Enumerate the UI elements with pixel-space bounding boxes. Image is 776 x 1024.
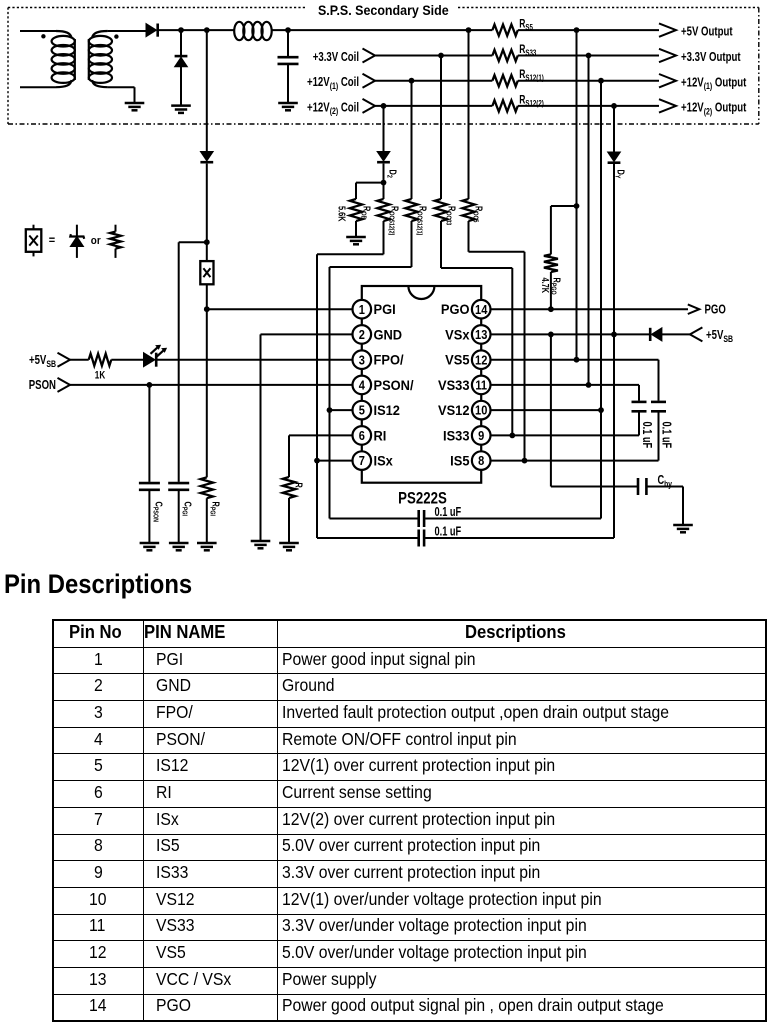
legend resistor symbol [110, 225, 121, 258]
label IS5 [450, 453, 470, 469]
svg-text:+12V(1) Output: +12V(1) Output [681, 76, 747, 91]
svg-text:VS12: VS12 [438, 403, 469, 419]
wire +12V(1) coil rail [375, 80, 492, 82]
node PSON to CPSON [147, 382, 153, 388]
resistor RI to ground [283, 477, 295, 543]
wire IS12 row to pin 5 [330, 409, 353, 411]
label ROCS12(1) [415, 206, 429, 235]
label ROCS12(2) [387, 206, 401, 235]
arrow +5VSB input [58, 353, 71, 367]
rectifier diode D1 on +5V rail [146, 24, 158, 37]
capacitor CPGI to ground [168, 242, 189, 543]
label C3 0.1 uF [659, 422, 673, 449]
node +12V(2) rail to D2 [381, 103, 387, 109]
label Cby [658, 474, 673, 489]
svg-text:IS33: IS33 [443, 428, 469, 444]
wire +5VSB to 1K resistor [70, 359, 89, 361]
node VS12 sense tap [598, 407, 604, 413]
capacitor CPSON to ground [139, 385, 160, 543]
svg-text:PGO: PGO [441, 302, 470, 318]
svg-text:+12V(1) Coil: +12V(1) Coil [307, 76, 359, 91]
wire PGI row to pin 1 [207, 308, 353, 310]
svg-text:+5V Output: +5V Output [681, 25, 733, 39]
arrow +5V Output [659, 23, 676, 36]
label +5V Output [681, 25, 733, 39]
capacitor C4 0.1uF on IS12 net [330, 410, 602, 527]
label RPGO [549, 278, 563, 295]
label RI [374, 428, 387, 444]
pin description table [52, 619, 767, 1022]
wire PGO row pin 14 to output arrow [491, 308, 689, 310]
wire GND pin 2 to ground rail [261, 334, 353, 541]
label +12V(2) Coil [307, 101, 359, 116]
legend equals sign [49, 235, 56, 247]
resistor ROCS12(2) [377, 183, 389, 255]
svg-text:IS5: IS5 [450, 453, 470, 469]
pin 14 PGO [472, 300, 491, 319]
svg-text:14: 14 [475, 302, 488, 317]
resistor ROC5 [462, 30, 474, 252]
wire VS33 row pin 11 [491, 384, 640, 386]
label IS33 [443, 428, 469, 444]
IC U1 PS222S body [362, 286, 481, 483]
node VSx to DY column [611, 332, 617, 338]
node RPGO top tap [574, 203, 580, 209]
freewheel diode D3 to ground [175, 30, 188, 106]
node D2 to ROB [381, 180, 387, 186]
node freewheel diode junction [178, 27, 184, 33]
capacitor C5 0.1uF on ISx net [317, 334, 614, 546]
svg-text:13: 13 [475, 327, 488, 342]
svg-text:PGI: PGI [374, 302, 396, 318]
svg-text:4: 4 [359, 378, 365, 393]
node PGI chain to CPGI link [204, 239, 210, 245]
pin 3 FPO/ [353, 350, 372, 369]
wire CPGI link [179, 241, 207, 243]
wire ROC33 to IS33 column [441, 268, 512, 435]
svg-text:6: 6 [359, 428, 365, 443]
wire +12V(1) sense column [600, 81, 602, 519]
arrow PGO output [688, 304, 700, 314]
label FPO/ [374, 352, 404, 368]
pin 4 PSON/ [353, 376, 372, 395]
label 5.6K [336, 206, 347, 222]
svg-text:RPGI: RPGI [208, 502, 222, 517]
output filter capacitor C1 [278, 30, 299, 103]
pin 12 VS5 [472, 350, 491, 369]
arrow PSON input [58, 378, 71, 392]
wire +12V(2) coil rail [375, 105, 492, 107]
label +12V(2) Output [681, 101, 747, 116]
arrow +5VSB right input [690, 327, 703, 341]
svg-text:D2: D2 [385, 170, 399, 179]
svg-text:11: 11 [475, 378, 487, 393]
node ISx column to pin 7 [314, 458, 320, 464]
svg-text:ROC5: ROC5 [471, 206, 485, 223]
ground at freewheel diode [171, 106, 191, 113]
svg-text:RI: RI [374, 428, 387, 444]
pin 11 VS33 [472, 376, 491, 395]
svg-text:VS5: VS5 [445, 352, 470, 368]
node +12V(1) rail to ROCS12(1) [409, 78, 415, 84]
svg-text:VSx: VSx [445, 327, 470, 343]
label PSON/ [374, 377, 414, 393]
svg-text:12: 12 [475, 352, 488, 367]
svg-text:PGO: PGO [705, 303, 726, 317]
label RS12(2) [519, 94, 544, 108]
label GND [374, 327, 403, 343]
wire ROCS12(2) to ISx column [317, 254, 384, 538]
label ISx [374, 453, 394, 469]
svg-text:+12V(2) Coil: +12V(2) Coil [307, 101, 359, 116]
ground at filter capacitor [278, 103, 298, 110]
label PGO [441, 302, 470, 318]
wire +3.3V rail right section [518, 55, 659, 57]
resistor RS5 [492, 25, 517, 36]
svg-text:+3.3V Coil: +3.3V Coil [313, 51, 359, 65]
svg-text:10: 10 [475, 403, 488, 418]
label +5VSB input [29, 354, 56, 369]
ground at transformer secondary [125, 103, 145, 110]
node +12V(2) sense tap [611, 103, 617, 109]
wire +5V rail left section [158, 29, 234, 31]
wire VS5 row pin 12 [491, 359, 659, 361]
transformer T1 secondary winding [89, 31, 146, 103]
pin 6 RI [353, 426, 372, 445]
arrow +12V(2) Coil input [363, 99, 376, 113]
svg-text:+3.3V Output: +3.3V Output [681, 51, 741, 65]
label +12V(1) Coil [307, 76, 359, 91]
resistor RS12(1) [492, 75, 517, 86]
svg-text:CPGI: CPGI [180, 502, 194, 517]
wire +3.3V sense column [588, 56, 590, 385]
label PGI [374, 302, 396, 318]
label +12V(1) Output [681, 76, 747, 91]
label ROB [359, 206, 373, 220]
label PGO output [705, 303, 726, 317]
label RS12(1) [519, 69, 544, 83]
svg-text:+12V(2) Output: +12V(2) Output [681, 101, 747, 116]
label C4 0.1 uF [435, 506, 462, 520]
ground at CPGI [169, 543, 189, 550]
diode D2 [377, 152, 390, 183]
svg-text:ROCS12(1): ROCS12(1) [415, 206, 429, 235]
pin 9 IS33 [472, 426, 491, 445]
arrow +3.3V Output [659, 49, 676, 62]
arrow +3.3V Coil input [363, 49, 376, 63]
svg-text:7: 7 [359, 453, 365, 468]
label +3.3V Coil [313, 51, 359, 65]
ground at ROB [346, 237, 366, 244]
node VS5 sense tap [574, 357, 580, 363]
wire +12V(2) rail right section [518, 105, 659, 107]
node +3.3V rail to ROC33 [438, 53, 444, 59]
svg-text:1K: 1K [95, 369, 105, 382]
wire 1K to LED [111, 359, 144, 361]
svg-text:3: 3 [359, 352, 365, 367]
svg-text:ISx: ISx [374, 453, 394, 469]
node IS12 column to pin 5 [327, 407, 333, 413]
node +12V(1) sense tap [598, 78, 604, 84]
transformer phase dot secondary [114, 34, 118, 38]
node PGI net junction [204, 306, 210, 312]
S.P.S. secondary side dashed boundary box [8, 8, 759, 125]
resistor RPGI to ground [201, 309, 213, 543]
resistor ROC33 [435, 56, 447, 269]
wire FPO row to pin 3 [157, 359, 353, 361]
pin 13 VSx [472, 325, 491, 344]
ground at RI [279, 543, 299, 550]
node +5V sense tap [574, 27, 580, 33]
label IS12 [374, 403, 400, 419]
svg-text:0.1 uF: 0.1 uF [435, 506, 462, 520]
wire ROC5 to IS5 column [469, 252, 525, 461]
node +5V rail to PGI chain [204, 27, 210, 33]
ground at GND pin [251, 541, 271, 548]
node +5V rail to ROC5 [466, 27, 472, 33]
label RS5 [519, 18, 533, 32]
pin 1 PGI [353, 300, 372, 319]
svg-text:PSON: PSON [29, 379, 56, 393]
wire RI pin 6 link [289, 435, 353, 477]
wire +5V sense column [576, 30, 578, 360]
svg-text:VS33: VS33 [438, 377, 469, 393]
label C5 0.1 uF [435, 525, 462, 539]
resistor RS12(2) [492, 100, 517, 111]
label PS222S [398, 489, 447, 508]
label 4.7K [540, 278, 551, 294]
label PSON input [29, 379, 56, 393]
pin 7 ISx [353, 451, 372, 470]
node +5V filter capacitor tap [285, 27, 291, 33]
svg-text:5: 5 [359, 403, 365, 418]
wire +5V rail middle section [272, 29, 493, 31]
arrow +12V(2) Output [659, 99, 676, 112]
heading Pin Descriptions [4, 569, 213, 600]
label VS33 [438, 377, 469, 393]
wire +5V rail down to PGI chain [206, 30, 208, 151]
label S.P.S. Secondary Side [318, 2, 449, 18]
protection element X1 (zener or resistor) in PGI chain [200, 242, 213, 309]
label RPGI [208, 502, 222, 517]
svg-text:S.P.S. Secondary Side: S.P.S. Secondary Side [318, 2, 449, 18]
ground at Cby [673, 525, 693, 532]
arrow +12V(1) Output [659, 74, 676, 87]
wire PSON row to pin 4 [70, 384, 353, 386]
pin 10 VS12 [472, 401, 491, 420]
label VS5 [445, 352, 470, 368]
legend or text [91, 236, 101, 248]
label C2 0.1 uF [640, 422, 654, 449]
svg-text:ROCS12(2): ROCS12(2) [387, 206, 401, 235]
node IS5 to ROC5 column [522, 458, 528, 464]
wire VSx row pin 13 [491, 333, 651, 335]
svg-text:Cby: Cby [658, 474, 673, 489]
wire +12V(2) column with DY [608, 106, 621, 538]
svg-text:=: = [49, 235, 56, 247]
svg-text:2: 2 [359, 327, 365, 342]
resistor ROCS12(1) [405, 81, 417, 267]
pin 8 IS5 [472, 451, 491, 470]
wire +3.3V coil rail [375, 55, 492, 57]
wire IS33 row pin 9 [491, 434, 640, 436]
label ROC5 [471, 206, 485, 223]
diode D4 in PGI chain [200, 152, 213, 243]
resistor RPGO 4.7K pull-up [544, 206, 577, 309]
label D2 [385, 170, 399, 179]
resistor ROB 5.6K to ground [350, 183, 362, 237]
label 1K [95, 369, 105, 382]
pin 2 GND [353, 325, 372, 344]
node +3.3V sense tap [586, 53, 592, 59]
schematic drawing: PS222S application circuit [0, 0, 776, 562]
wire D2 junction to ROB [356, 182, 384, 184]
svg-text:+5VSB: +5VSB [29, 354, 56, 369]
svg-text:CPSON: CPSON [151, 502, 165, 523]
label VS12 [438, 403, 469, 419]
capacitor C2 0.1uF between VS33 and IS33 rows [632, 385, 647, 436]
ground at CPSON [140, 543, 160, 550]
node IS33 to ROC33 column [509, 433, 515, 439]
svg-text:PSON/: PSON/ [374, 377, 414, 393]
label +5VSB right [706, 329, 733, 344]
svg-text:1: 1 [359, 302, 365, 317]
label DY [613, 170, 627, 180]
svg-text:or: or [91, 236, 101, 248]
svg-text:ROB: ROB [359, 206, 373, 220]
wire VS12 row pin 10 [491, 409, 602, 411]
transformer phase dot primary [41, 34, 45, 38]
label CPGI [180, 502, 194, 517]
wire ROCS12(1) to IS12 column [330, 267, 412, 519]
resistor 1K [89, 354, 112, 366]
capacitor C3 0.1uF between VS5 and IS5 rows [651, 360, 666, 461]
svg-text:FPO/: FPO/ [374, 352, 404, 368]
wire IS5 row pin 8 [491, 460, 659, 462]
svg-text:9: 9 [478, 428, 484, 443]
legend zener diode symbol [70, 225, 84, 258]
legend box symbol X [26, 225, 42, 257]
svg-text:4.7K: 4.7K [540, 278, 551, 294]
wire +5V rail right section [518, 29, 659, 31]
svg-text:8: 8 [478, 453, 484, 468]
svg-text:DY: DY [613, 170, 627, 180]
wire Cby column from VSx [551, 334, 637, 486]
svg-text:0.1 uF: 0.1 uF [640, 422, 654, 449]
ground at RPGI [197, 543, 217, 550]
wire +12V(2) down to D2 [383, 106, 385, 152]
svg-text:5.6K: 5.6K [336, 206, 347, 222]
node VSx to Cby column [548, 332, 554, 338]
label CPSON [151, 502, 165, 523]
svg-text:0.1 uF: 0.1 uF [659, 422, 673, 449]
resistor RS33 [492, 50, 517, 61]
svg-text:ROC33: ROC33 [444, 206, 458, 226]
svg-text:0.1 uF: 0.1 uF [435, 525, 462, 539]
output filter inductor L1 [234, 22, 272, 40]
node RPGO bottom on PGO row [548, 306, 554, 312]
svg-text:+5VSB: +5VSB [706, 329, 733, 344]
label VSx [445, 327, 470, 343]
label +3.3V Output [681, 51, 741, 65]
label ROC33 [444, 206, 458, 226]
LED D5 power indicator [144, 345, 167, 366]
svg-text:GND: GND [374, 327, 403, 343]
diode D6 from +5VSB to VSx [650, 328, 690, 341]
capacitor Cby bypass [638, 478, 683, 525]
arrow +12V(1) Coil input [363, 74, 376, 88]
wire ISx row to pin 7 [317, 460, 353, 462]
label RS33 [519, 44, 536, 58]
transformer T1 primary winding [20, 31, 75, 87]
pin 5 IS12 [353, 401, 372, 420]
svg-text:IS12: IS12 [374, 403, 400, 419]
wire +12V(1) rail right section [518, 80, 659, 82]
label RI resistor [291, 483, 305, 490]
node VS33 sense tap [586, 382, 592, 388]
